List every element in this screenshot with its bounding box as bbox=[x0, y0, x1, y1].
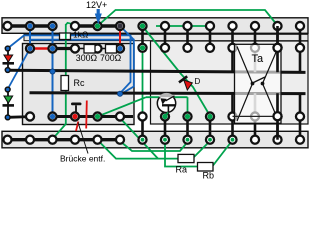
svg-text:Ta: Ta bbox=[252, 53, 265, 65]
svg-text:Brücke entf.: Brücke entf. bbox=[60, 154, 105, 164]
svg-text:Rb: Rb bbox=[203, 171, 215, 181]
svg-text:D: D bbox=[195, 77, 201, 86]
svg-text:Rc: Rc bbox=[74, 78, 85, 88]
svg-text:1kΩ: 1kΩ bbox=[73, 30, 88, 40]
svg-text:Ra: Ra bbox=[176, 165, 188, 175]
svg-text:700Ω: 700Ω bbox=[100, 53, 122, 63]
svg-text:12V+: 12V+ bbox=[86, 0, 107, 10]
svg-text:300Ω: 300Ω bbox=[76, 53, 98, 63]
